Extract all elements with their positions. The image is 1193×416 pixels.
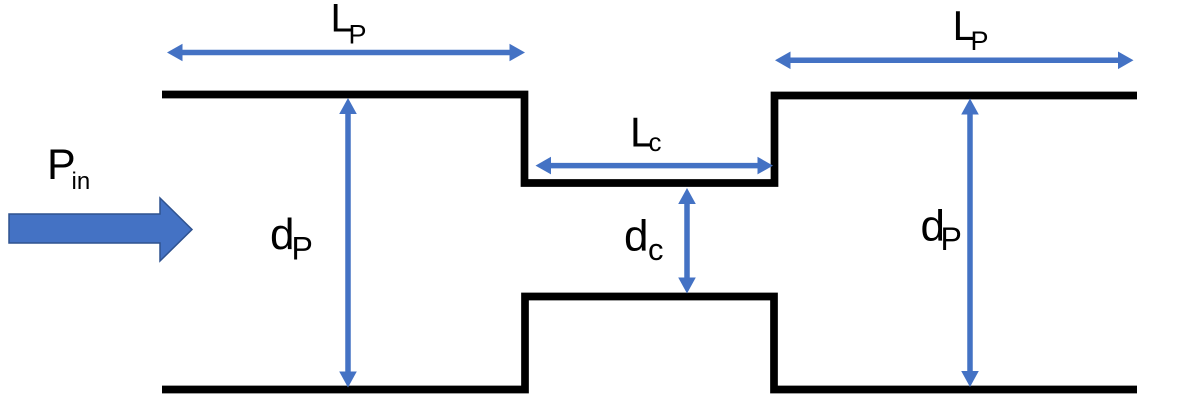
svg-text:c: c — [649, 127, 662, 157]
svg-text:d: d — [624, 212, 648, 261]
svg-text:P: P — [292, 231, 313, 267]
svg-text:c: c — [648, 232, 664, 267]
svg-text:P: P — [971, 26, 989, 56]
svg-text:P: P — [941, 221, 962, 257]
svg-text:in: in — [72, 168, 91, 195]
svg-text:P: P — [349, 20, 367, 50]
